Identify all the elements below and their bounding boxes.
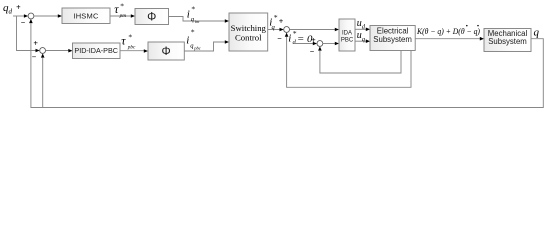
arrowhead into IDA PBC row 1 bbox=[335, 28, 339, 32]
svg-text:PBC: PBC bbox=[341, 37, 354, 43]
arrowhead into Phi2 bbox=[144, 49, 148, 53]
arrowhead up into summing junction 4 bbox=[318, 46, 322, 50]
wire u_d IDA PBC to Electrical Subsystem bbox=[355, 28, 366, 30]
arrowhead up into summing junction 2 bbox=[41, 53, 45, 57]
svg-text:−: − bbox=[310, 47, 315, 56]
svg-text:uq: uq bbox=[357, 30, 366, 43]
wire u_q IDA PBC to Electrical Subsystem bbox=[355, 40, 366, 42]
svg-text:*: * bbox=[191, 5, 195, 14]
summing junction 3 bbox=[284, 27, 290, 33]
svg-text:+: + bbox=[279, 17, 284, 26]
block Phi1 bbox=[135, 9, 169, 25]
svg-text:Φ: Φ bbox=[147, 12, 156, 24]
wire Phi1 to Switching Control (with jog) bbox=[169, 17, 226, 22]
arrowhead into summing junction 2 bbox=[36, 49, 40, 53]
svg-text:τ: τ bbox=[114, 2, 119, 16]
svg-text:IDA: IDA bbox=[342, 30, 352, 36]
svg-text:q: q bbox=[272, 24, 276, 31]
wire summing junction 2 to PID-IDA-PBC bbox=[46, 50, 69, 52]
wire summing junction 1 to IHSMC bbox=[34, 15, 58, 17]
block Switching Control bbox=[229, 13, 268, 51]
block IDA PBC bbox=[339, 19, 355, 51]
summing junction 1 bbox=[28, 13, 34, 19]
svg-text:*: * bbox=[274, 13, 278, 22]
svg-text:*: * bbox=[120, 2, 124, 11]
svg-text:im: im bbox=[195, 19, 200, 24]
svg-text:*: * bbox=[128, 33, 132, 42]
svg-text:*: * bbox=[293, 29, 297, 38]
svg-text:Φ: Φ bbox=[162, 46, 171, 58]
wire summing junction 3 to IDA PBC bbox=[290, 29, 336, 31]
arrowhead into IHSMC bbox=[58, 14, 62, 18]
svg-text:+: + bbox=[16, 3, 21, 12]
arrowhead into Switching Control top input bbox=[225, 19, 229, 23]
wire Switching Control to summing junction 3 bbox=[268, 29, 280, 31]
arrowhead into summing junction 3 bbox=[280, 28, 284, 32]
svg-text:i: i bbox=[186, 34, 189, 46]
wire q feedback branch up to summing junction 2 bbox=[42, 58, 44, 108]
wire Electrical Subsystem to Mechanical Subsystem bbox=[415, 38, 480, 40]
wire into summing junction 4 bbox=[294, 43, 313, 45]
arrowhead into Electrical Subsystem u_d bbox=[366, 28, 370, 32]
svg-text:pm: pm bbox=[119, 13, 127, 19]
svg-text:PID-IDA-PBC: PID-IDA-PBC bbox=[74, 46, 118, 55]
dot above theta in second term bbox=[466, 25, 468, 27]
block Mechanical Subsystem bbox=[484, 29, 531, 52]
wire qd branch down to second summing junction bbox=[17, 16, 37, 51]
wire i_q feedback loop B from Electrical Subsystem to summing junction 3 bbox=[287, 37, 411, 88]
svg-text:−: − bbox=[32, 53, 37, 62]
svg-text:Subsystem: Subsystem bbox=[488, 37, 527, 46]
wire q feedback: right vertical, bottom line, up to junction 1 bbox=[31, 23, 543, 107]
arrowhead into Phi1 bbox=[131, 14, 135, 18]
block IHSMC bbox=[62, 8, 110, 24]
wire qd input horizontal bbox=[13, 15, 24, 17]
svg-text:*: * bbox=[191, 27, 195, 36]
block Phi2 bbox=[148, 42, 184, 60]
arrowhead into Electrical Subsystem u_q bbox=[366, 39, 370, 43]
arrowhead into Mechanical Subsystem bbox=[480, 37, 484, 41]
svg-text:q: q bbox=[534, 27, 540, 39]
summing junction 4 bbox=[317, 41, 323, 47]
arrowhead into summing junction 1 bbox=[24, 14, 28, 18]
svg-text:Subsystem: Subsystem bbox=[373, 35, 412, 44]
svg-text:qd: qd bbox=[3, 2, 13, 15]
arrowhead up into summing junction 3 bbox=[285, 33, 289, 37]
svg-text:i: i bbox=[288, 33, 291, 45]
wire i_d feedback loop A from Electrical Subsystem to summing junction 4 bbox=[320, 50, 401, 73]
svg-text:ud: ud bbox=[357, 18, 366, 30]
svg-text:−: − bbox=[21, 18, 26, 27]
svg-text:IHSMC: IHSMC bbox=[73, 12, 99, 21]
dot above q in second term bbox=[477, 25, 479, 27]
arrowhead into PID-IDA-PBC bbox=[68, 49, 72, 53]
wire IHSMC to Phi1 bbox=[110, 15, 131, 17]
arrowhead into Switching Control bottom input bbox=[225, 40, 229, 44]
svg-text:d: d bbox=[293, 39, 297, 46]
wire Phi2 to Switching Control (with jog up) bbox=[184, 42, 225, 51]
arrowhead into summing junction 4 bbox=[313, 42, 317, 46]
arrowhead into IDA PBC row 2 bbox=[335, 42, 339, 46]
svg-text:Switching: Switching bbox=[231, 23, 267, 33]
svg-text:τ: τ bbox=[121, 34, 126, 48]
arrowhead up into summing junction 1 bbox=[29, 19, 33, 23]
svg-text:pbc: pbc bbox=[127, 44, 136, 50]
wire PID-IDA-PBC to Phi2 bbox=[120, 50, 144, 52]
svg-text:Control: Control bbox=[235, 33, 262, 43]
svg-text:−: − bbox=[277, 34, 282, 43]
block Electrical Subsystem bbox=[370, 26, 415, 51]
summing junction 2 bbox=[40, 48, 46, 54]
svg-text:K(θ − q) + D(θ − q): K(θ − q) + D(θ − q) bbox=[416, 26, 480, 36]
wire summing junction 4 to IDA PBC bbox=[323, 43, 335, 45]
svg-text:+: + bbox=[33, 39, 38, 48]
block PID-IDA-PBC bbox=[73, 43, 121, 59]
svg-text:i: i bbox=[187, 8, 190, 20]
svg-text:pbc: pbc bbox=[193, 45, 201, 50]
